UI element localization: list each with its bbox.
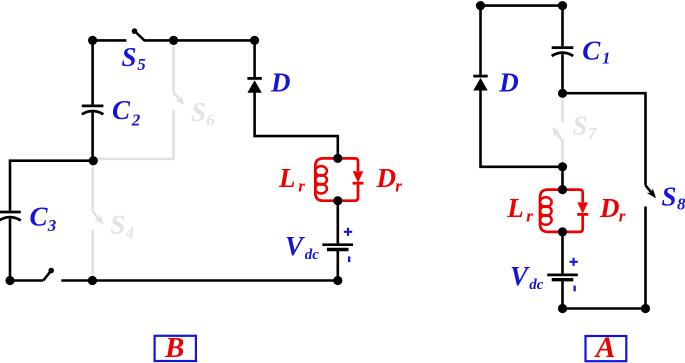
node N1 [88, 36, 97, 45]
svg-text:r: r [298, 176, 305, 195]
label S5 [122, 42, 147, 74]
wire: B top segment from S5 to corner node N3 [144, 39, 255, 42]
node M6 (red loop bottom) [558, 227, 567, 236]
svg-text:4: 4 [124, 224, 133, 243]
capacitor C1 [552, 48, 574, 56]
capacitor C3 [0, 212, 21, 221]
switch S7 (gray) arrow blade pointing up-left [552, 127, 563, 141]
inductor Lr (circuit A) coil loops [540, 197, 552, 224]
svg-text:S: S [191, 97, 206, 127]
label S4 (gray) [110, 210, 134, 243]
wire: red loop right side upper [563, 190, 583, 203]
node N5 (red loop top) [333, 154, 342, 163]
svg-text:C: C [582, 35, 601, 65]
switch S5 blade [135, 31, 145, 40]
wire: black stub from M4 down to red loop top node M5 [561, 167, 564, 190]
svg-text:D: D [376, 163, 397, 193]
svg-text:r: r [619, 207, 626, 226]
node N6 (red loop bottom) [333, 196, 342, 205]
wire: A bottom wire from M7 to M8 [563, 307, 646, 310]
svg-text:1: 1 [602, 49, 611, 68]
label Vdc (circuit A) [510, 261, 544, 293]
wire: gray branch S4 upper segment from node N4 down [91, 161, 94, 212]
wire: from M3 right then down to switch S8 [563, 93, 646, 185]
wire: B bottom wire from switch to node N9 [61, 279, 338, 282]
svg-text:5: 5 [137, 55, 146, 74]
svg-text:V: V [510, 261, 530, 291]
svg-text:dc: dc [529, 277, 544, 293]
wire: from node N4 left then down to C3 [10, 161, 93, 211]
wire: C3 lower wire down to bottom-left node N7 [9, 219, 12, 281]
node N9 (battery bottom) [333, 276, 342, 285]
wire: B top-left segment from node N1 to switch S5 gap [93, 39, 127, 42]
wire: from diode D down then right to node M4 [481, 90, 563, 167]
battery minus tick (circuit A) [574, 286, 576, 292]
switch S6 (gray) arrow blade [174, 92, 185, 105]
label Lr (circuit A) [506, 193, 533, 226]
switch S4 (gray) arrow blade [93, 212, 104, 225]
label C1 [582, 35, 610, 67]
wire: gray branch S6 lower segment to corner then left to node N4 [95, 110, 174, 159]
svg-text:3: 3 [47, 216, 57, 235]
svg-text:6: 6 [206, 111, 215, 130]
svg-text:C: C [112, 95, 131, 125]
label S7 (gray) [573, 111, 598, 144]
label S6 (gray) [191, 97, 215, 130]
label C2 [112, 95, 141, 130]
node M5 (red loop top) [558, 185, 567, 194]
label D (circuit A) [498, 68, 519, 98]
wire: red loop outline left side (inductor frame) [315, 158, 338, 200]
diode D (circuit A) [473, 76, 487, 90]
svg-text:r: r [526, 207, 533, 226]
node N4 [89, 156, 98, 165]
wire: C2 branch lower wire down to node N4 [91, 113, 94, 161]
wire: diode D branch from N3 down [253, 40, 256, 77]
wire: red loop right side lower [563, 214, 583, 232]
node N2 [169, 36, 178, 45]
node N7 (bottom left) [5, 276, 14, 285]
node M8 (S8 bottom) [641, 304, 650, 313]
svg-text:dc: dc [305, 247, 320, 263]
svg-text:2: 2 [131, 111, 141, 130]
wire: red loop right side upper [338, 158, 358, 171]
wire: gray branch S4 lower segment down to bottom wire node N8 [91, 230, 94, 281]
diode Dr (circuit A) pointing down [577, 202, 588, 214]
wire: from red node M6 down to battery [561, 232, 564, 274]
diode D (circuit B) [247, 78, 261, 92]
inductor Lr (circuit B) coil loops [315, 166, 327, 193]
switch (bottom) pivot dot [48, 268, 54, 274]
wire: from battery down to bottom node M7 [561, 281, 564, 308]
wire: gray branch S6 upper segment from node N2 down [172, 40, 175, 92]
battery plus sign (circuit A) [569, 258, 577, 266]
label Lr (circuit B) [278, 163, 305, 196]
svg-text:D: D [270, 68, 291, 98]
switch S8 arrow blade [646, 185, 657, 198]
diode Dr (circuit B) pointing down [353, 171, 364, 183]
svg-text:D: D [498, 68, 519, 98]
capacitor C2 [82, 106, 104, 114]
svg-text:8: 8 [677, 195, 685, 214]
node M2 [558, 1, 567, 10]
label D (circuit B) [270, 68, 291, 98]
node M7 (battery bottom) [558, 304, 567, 313]
svg-text:S: S [110, 210, 125, 240]
label Dr (circuit A) [599, 193, 626, 226]
wire: A left branch from M1 down to diode D [479, 6, 482, 75]
svg-text:S: S [122, 42, 137, 72]
label Dr (circuit B) [376, 163, 403, 196]
switch S5 pivot dot [132, 28, 138, 34]
wire: gray branch S7 upper segment from node M3 down [561, 93, 564, 122]
svg-text:S: S [662, 181, 677, 211]
svg-text:7: 7 [588, 124, 598, 143]
node N3 [250, 36, 259, 45]
svg-text:V: V [285, 231, 305, 261]
svg-text:L: L [278, 163, 296, 193]
node N8 [88, 276, 97, 285]
label box A [586, 332, 627, 363]
wire: from red node N6 down to battery [336, 201, 339, 244]
node M3 [558, 89, 567, 98]
svg-text:S: S [573, 111, 588, 141]
wire: gray branch S7 lower segment down to node M4 [561, 140, 564, 167]
wire: A top wire from M1 to M2 [481, 4, 563, 7]
label S8 [662, 181, 685, 213]
label C3 [30, 202, 57, 236]
svg-text:C: C [30, 202, 49, 232]
wire: C1 branch upper wire from M2 down [561, 6, 564, 47]
svg-text:D: D [599, 193, 620, 223]
battery minus tick (circuit B) [348, 256, 350, 262]
wire: from battery down to bottom node N9 [336, 251, 339, 281]
label Vdc (circuit B) [285, 231, 319, 263]
wire: C1 lower wire down to node M3 [561, 54, 564, 93]
wire: C2 branch upper wire from N1 down [91, 40, 94, 104]
switch (bottom, unlabeled) blade [43, 271, 51, 281]
wire: from diode D down, right, down to red node N5 [255, 92, 338, 158]
svg-text:L: L [506, 193, 524, 223]
wire: bottom-left stub from N7 to switch blade [10, 279, 43, 282]
svg-text:B: B [164, 332, 184, 363]
node M1 [476, 1, 485, 10]
battery Vdc (circuit A) [547, 275, 578, 280]
node M4 [558, 162, 567, 171]
svg-text:A: A [594, 332, 616, 363]
wire: red loop outline left side (inductor frame) [540, 190, 563, 232]
wire: red loop right side lower [338, 183, 358, 201]
battery plus sign (circuit B) [344, 228, 352, 236]
wire: S8 lower segment down to node M8 [644, 207, 647, 309]
label box B [155, 332, 196, 363]
svg-text:r: r [395, 176, 402, 195]
battery Vdc (circuit B) [322, 245, 353, 250]
